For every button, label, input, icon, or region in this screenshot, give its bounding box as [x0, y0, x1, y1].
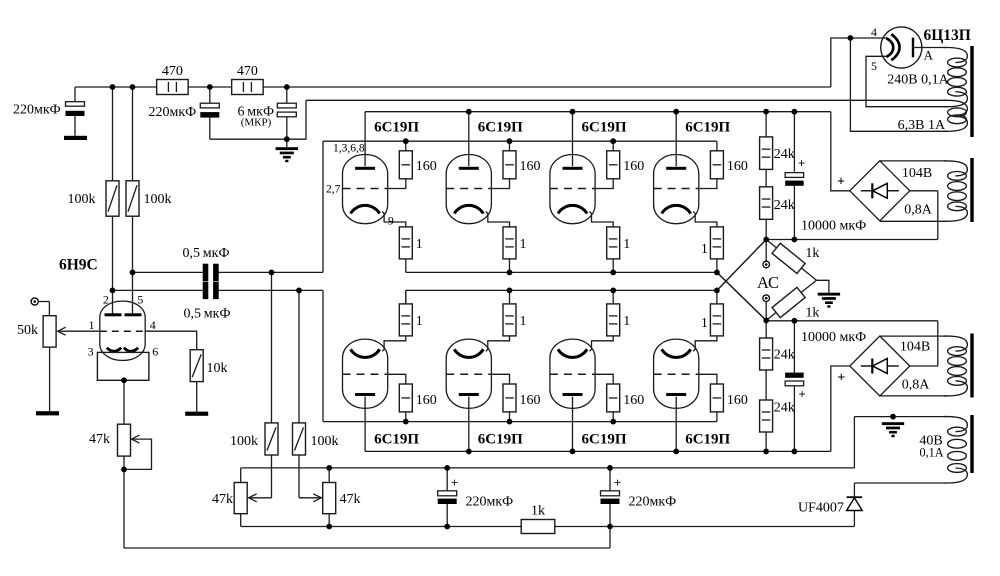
- tube V7 6C19P: [446, 339, 491, 408]
- wire pin4 junction down to 6.3V winding bottom: [850, 38, 946, 131]
- svg-text:6С19П: 6С19П: [685, 431, 730, 447]
- resistor 160 grid stopper bottom 3: [607, 384, 645, 412]
- resistor R11 100k: [293, 423, 339, 455]
- svg-text:UF4007: UF4007: [798, 501, 844, 516]
- wire driver cathode to 47k pot: [124, 380, 152, 469]
- svg-text:1: 1: [89, 318, 95, 332]
- svg-text:220мкФ: 220мкФ: [149, 105, 197, 120]
- core bar winding 40V: [970, 415, 973, 473]
- wire 10k bottom to ground: [196, 382, 198, 412]
- wire coupling cap2 net to bottom grid riser: [113, 290, 324, 421]
- svg-text:6С19П: 6С19П: [374, 431, 419, 447]
- svg-text:6,3В 1А: 6,3В 1А: [898, 118, 946, 133]
- tube V4 6C19P: [550, 155, 595, 224]
- svg-text:1k: 1k: [805, 246, 819, 261]
- svg-text:50k: 50k: [17, 323, 38, 338]
- svg-text:100k: 100k: [230, 434, 258, 449]
- tube V8 6C19P: [550, 339, 595, 408]
- capacitor C9 10000uF: [785, 373, 805, 402]
- svg-text:3: 3: [88, 345, 94, 359]
- wire C3 leads: [286, 87, 288, 147]
- svg-text:6Н9С: 6Н9С: [59, 257, 98, 274]
- svg-text:1: 1: [520, 314, 527, 329]
- core bar winding 104V upper: [970, 158, 973, 222]
- svg-text:1: 1: [623, 314, 630, 329]
- svg-text:160: 160: [623, 159, 644, 174]
- wire AC diamond right corner to ground: [817, 280, 829, 292]
- svg-text:6С19П: 6С19П: [582, 431, 627, 447]
- wire bottom tube cathode leads: [382, 290, 717, 351]
- AC terminal bottom: [763, 295, 770, 320]
- svg-text:47k: 47k: [340, 492, 361, 507]
- svg-text:47k: 47k: [212, 492, 233, 507]
- potentiometer R9 47k: [89, 424, 131, 456]
- wire bottom grid rail: [323, 412, 717, 422]
- svg-text:100k: 100k: [311, 434, 339, 449]
- label C3 6uF: [238, 105, 275, 129]
- resistor R8 10k: [190, 350, 227, 382]
- svg-text:0,5 мкФ: 0,5 мкФ: [183, 246, 230, 261]
- svg-text:6С19П: 6С19П: [478, 119, 523, 135]
- svg-text:1k: 1k: [805, 306, 819, 321]
- svg-text:160: 160: [520, 393, 541, 408]
- bridge rectifier D2 104V: [837, 336, 910, 396]
- potentiometer R12 47k: [212, 483, 247, 514]
- resistor 1 cathode top 2: [503, 227, 527, 259]
- ground under 50k: [36, 411, 59, 415]
- svg-text:160: 160: [623, 393, 644, 408]
- resistor R10 100k: [230, 423, 278, 455]
- tube V3 6C19P: [446, 155, 491, 224]
- core bar top transformer: [970, 46, 973, 137]
- svg-text:1: 1: [623, 237, 630, 252]
- svg-text:АС: АС: [757, 273, 779, 292]
- resistor R3 100k: [68, 181, 120, 216]
- resistor R16 24k: [760, 187, 795, 220]
- wire ground bus to 6.3V winding top: [287, 100, 946, 139]
- capacitor C6 220uF: [438, 476, 514, 510]
- svg-text:10000 мкФ: 10000 мкФ: [801, 330, 866, 345]
- svg-text:+: +: [451, 476, 458, 490]
- wire 100k R5 bias feed: [248, 272, 271, 501]
- wire C1 leads: [74, 87, 76, 136]
- wire bottom tube grid stopper leads: [388, 374, 717, 384]
- input terminal: [31, 298, 38, 305]
- svg-text:+: +: [798, 388, 805, 402]
- ground at 40V winding: [882, 422, 904, 437]
- resistor 160 grid stopper bottom 1: [399, 384, 437, 412]
- wire AC bridge output diamond left edges: [0, 0, 1, 1]
- svg-text:1: 1: [416, 314, 423, 329]
- wire C2 leads: [209, 87, 211, 139]
- svg-text:0,8А: 0,8А: [904, 203, 933, 218]
- resistor R2 470: [232, 64, 264, 95]
- transformer winding 104V upper: [944, 161, 967, 221]
- svg-text:1k: 1k: [531, 504, 545, 519]
- svg-text:+: +: [798, 157, 805, 171]
- wire 40V winding top to rail E: [854, 417, 946, 468]
- svg-text:6С19П: 6С19П: [478, 431, 523, 447]
- svg-text:6С19П: 6С19П: [582, 119, 627, 135]
- transformer winding 240V: [944, 48, 967, 107]
- svg-text:160: 160: [727, 159, 748, 174]
- tube V2 6C19P: [343, 155, 388, 224]
- svg-text:104В: 104В: [900, 340, 930, 355]
- wire 50k wiper to grid pin1: [57, 330, 100, 332]
- resistor R18 24k: [760, 400, 795, 432]
- svg-text:470: 470: [162, 64, 183, 79]
- wire rail A top plate supply: [365, 112, 850, 191]
- wire rail B top grid bus: [323, 141, 717, 151]
- svg-text:220мкФ: 220мкФ: [13, 103, 61, 118]
- tube V5 6C19P: [654, 155, 699, 224]
- svg-text:160: 160: [727, 393, 748, 408]
- svg-text:+: +: [837, 371, 845, 386]
- svg-text:4: 4: [871, 25, 877, 39]
- transformer winding 104V lower: [944, 336, 967, 396]
- transformer winding 6.3V: [944, 100, 967, 131]
- wire B+ bus from C1 to riser: [75, 38, 882, 87]
- resistor 1 cathode top 1: [399, 227, 423, 259]
- svg-text:1: 1: [701, 242, 708, 257]
- svg-text:10k: 10k: [207, 361, 228, 376]
- svg-text:0,5 мкФ: 0,5 мкФ: [184, 307, 231, 322]
- tube V10 6Ts13P: [881, 27, 946, 68]
- transformer winding 40V: [944, 417, 967, 483]
- resistor R15 24k: [760, 137, 795, 170]
- svg-text:0,8А: 0,8А: [902, 378, 931, 393]
- svg-text:9: 9: [388, 216, 394, 228]
- svg-text:24k: 24k: [774, 401, 795, 416]
- resistor 1 cathode top 4: [701, 227, 724, 259]
- bridge rectifier D1 104V: [837, 161, 910, 221]
- speaker bridge AC diamond: [717, 240, 766, 321]
- pin labels V1: [88, 293, 159, 359]
- wire 50k bottom to ground: [49, 347, 51, 411]
- svg-text:1: 1: [416, 237, 423, 252]
- svg-text:160: 160: [416, 393, 437, 408]
- svg-text:6Ц13П: 6Ц13П: [924, 27, 971, 44]
- svg-text:160: 160: [416, 159, 437, 174]
- svg-text:2,7: 2,7: [326, 184, 341, 196]
- resistor 1 cathode bottom 1: [399, 304, 423, 336]
- svg-text:+: +: [614, 476, 621, 490]
- wire input terminal to 50k: [38, 302, 49, 316]
- resistor 1 cathode bottom 3: [607, 304, 631, 336]
- svg-text:24k: 24k: [774, 348, 795, 363]
- svg-text:24k: 24k: [774, 147, 795, 162]
- svg-text:47k: 47k: [89, 432, 110, 447]
- capacitor C8 10000uF: [785, 157, 805, 186]
- svg-text:220мкФ: 220мкФ: [466, 495, 514, 510]
- svg-text:А: А: [924, 48, 934, 63]
- tube V9 6C19P: [654, 339, 699, 408]
- svg-text:100k: 100k: [144, 192, 172, 207]
- svg-text:240В 0,1А: 240В 0,1А: [887, 72, 949, 87]
- wire 100k R6 bias feed: [299, 290, 322, 501]
- wire bridge1 AC to winding2: [880, 161, 948, 221]
- resistor R1 470: [157, 64, 189, 95]
- resistor 160 grid stopper bottom 2: [503, 384, 541, 412]
- resistor 160 grid stopper top 2: [503, 151, 541, 179]
- resistor 1 cathode bottom 4: [701, 304, 724, 336]
- wire grid pin4 to 10k: [145, 331, 196, 350]
- resistor 160 grid stopper top 4: [710, 151, 748, 179]
- wire rail E: [241, 468, 855, 491]
- tube V1 6N9S: [97, 301, 148, 380]
- wire bridge2 AC to winding3: [880, 336, 947, 396]
- wire top tube grid stopper leads: [388, 179, 717, 189]
- wire coupling cap1 net to rail B riser: [133, 141, 324, 272]
- resistor R20 1k diagonal: [766, 280, 819, 320]
- wire driver plate leads: [113, 87, 133, 315]
- svg-text:6С19П: 6С19П: [685, 119, 730, 135]
- svg-text:6С19П: 6С19П: [374, 119, 419, 135]
- wire feedback bottom run: [124, 456, 610, 548]
- resistor R19 1k diagonal: [766, 240, 819, 281]
- svg-text:1,3,6,8: 1,3,6,8: [333, 143, 365, 155]
- resistor R4 100k: [126, 181, 172, 216]
- svg-text:160: 160: [520, 159, 541, 174]
- wire rail D bottom plate supply: [365, 366, 850, 451]
- wire 24k top cap1 10000uF leads: [793, 185, 795, 374]
- ground under C1: [64, 136, 87, 140]
- wire 24k divider interconnects: [765, 169, 767, 400]
- capacitor C2 220uF: [149, 103, 220, 120]
- svg-text:4: 4: [150, 318, 156, 332]
- wire output node A to bridge1 minus: [766, 191, 938, 240]
- capacitor C3 6uF MKP: [277, 103, 296, 117]
- svg-text:+: +: [837, 175, 845, 190]
- svg-text:24k: 24k: [774, 198, 795, 213]
- svg-text:10000 мкФ: 10000 мкФ: [801, 219, 866, 234]
- svg-text:0,1А: 0,1А: [919, 446, 943, 460]
- wire top output rail: [406, 272, 766, 320]
- wire top tube cathode leads: [382, 212, 717, 273]
- svg-text:1: 1: [520, 237, 527, 252]
- svg-text:104В: 104В: [902, 166, 932, 181]
- svg-text:470: 470: [237, 64, 258, 79]
- resistor 160 grid stopper top 3: [607, 151, 645, 179]
- resistor R17 24k: [760, 338, 795, 370]
- capacitor C4 0.5uF: [203, 264, 219, 281]
- wire bottom cathode rail C: [406, 240, 766, 304]
- svg-text:6: 6: [152, 345, 158, 359]
- potentiometer R13 47k: [323, 483, 361, 514]
- svg-text:5: 5: [137, 293, 143, 307]
- resistor R14 1k: [521, 504, 555, 534]
- svg-text:2: 2: [103, 293, 109, 307]
- wire rail F negative bus: [241, 504, 855, 527]
- core bar winding 104V lower: [970, 334, 973, 398]
- svg-text:100k: 100k: [68, 192, 96, 207]
- resistor 1 cathode top 3: [607, 227, 631, 259]
- resistor 160 grid stopper top 1: [399, 151, 437, 179]
- wire output node B to bridge2 minus: [766, 321, 938, 366]
- wire 220uF C2 bottom to ground node: [210, 138, 287, 140]
- capacitor C5 0.5uF: [203, 282, 219, 299]
- ground at C3: [276, 147, 298, 162]
- AC terminal top: [763, 240, 770, 268]
- svg-text:(МКР): (МКР): [241, 117, 272, 129]
- svg-text:5: 5: [871, 59, 877, 73]
- diode D3 UF4007: [798, 497, 862, 515]
- ground under 10k: [185, 412, 208, 416]
- potentiometer R7 50k: [17, 316, 56, 347]
- wire 40V winding bottom to UF4007: [854, 483, 946, 527]
- ground at AC bridge: [818, 293, 840, 308]
- svg-text:220мкФ: 220мкФ: [629, 495, 677, 510]
- tube V6 6C19P: [343, 339, 388, 408]
- resistor 160 grid stopper bottom 4: [710, 384, 748, 412]
- capacitor C7 220uF: [601, 476, 677, 510]
- svg-text:1: 1: [701, 316, 708, 331]
- capacitor C1 220uF: [13, 102, 85, 118]
- wire rectifier cathode pin5 to 240V winding bottom: [866, 56, 948, 106]
- resistor 1 cathode bottom 2: [503, 304, 527, 336]
